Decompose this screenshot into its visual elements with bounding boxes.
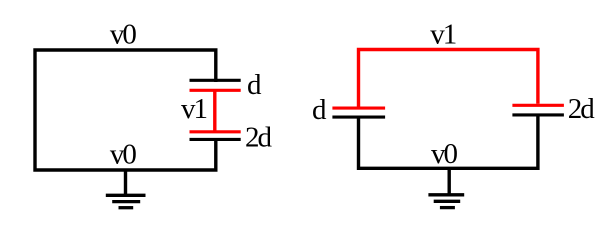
capacitor d (left circuit) bottom plate (red, node v1) (190, 89, 241, 92)
capacitor 2d (left circuit) bottom plate (190, 138, 241, 141)
value label 2d (right circuit) (568, 93, 596, 125)
wire: node v1 top wire (right circuit, red) with stems to capacitor top plates (359, 50, 538, 107)
node label v1 (left circuit) (181, 93, 207, 125)
wire: node v1 between capacitors (left circuit, red) (213, 90, 216, 132)
value label 2d (left circuit) (245, 121, 273, 153)
svg-text:2d: 2d (568, 93, 596, 125)
svg-text:v1: v1 (430, 19, 456, 51)
ground (right circuit) (428, 168, 464, 207)
svg-text:v0: v0 (110, 19, 137, 51)
capacitor 2d (right circuit) top plate (red, node v1) (512, 104, 564, 107)
svg-text:v1: v1 (181, 93, 207, 125)
capacitor d (right circuit) top plate (red, node v1) (332, 107, 385, 110)
capacitor d (left circuit) top plate (190, 79, 241, 82)
svg-text:v0: v0 (110, 139, 137, 171)
value label d (right circuit) (312, 94, 327, 126)
wire: left circuit loop (top v0 wire, left side, bottom v0 wire, stems to capacitors) (35, 50, 216, 170)
svg-text:v0: v0 (431, 138, 458, 170)
svg-text:2d: 2d (245, 121, 273, 153)
ground (left circuit) (106, 170, 146, 208)
value label d (left circuit) (247, 69, 262, 101)
wire: bottom v0 wire (right circuit) with stems from capacitor bottom plates (359, 116, 538, 168)
capacitor d (right circuit) bottom plate (332, 116, 385, 119)
node label v0 (left circuit, top) (110, 19, 137, 51)
capacitor 2d (right circuit) bottom plate (512, 113, 564, 116)
node label v0 (right circuit, bottom) (431, 138, 458, 170)
node label v1 (right circuit, top) (430, 19, 456, 51)
node label v0 (left circuit, bottom) (110, 139, 137, 171)
capacitor 2d (left circuit) top plate (red, node v1) (190, 130, 241, 133)
